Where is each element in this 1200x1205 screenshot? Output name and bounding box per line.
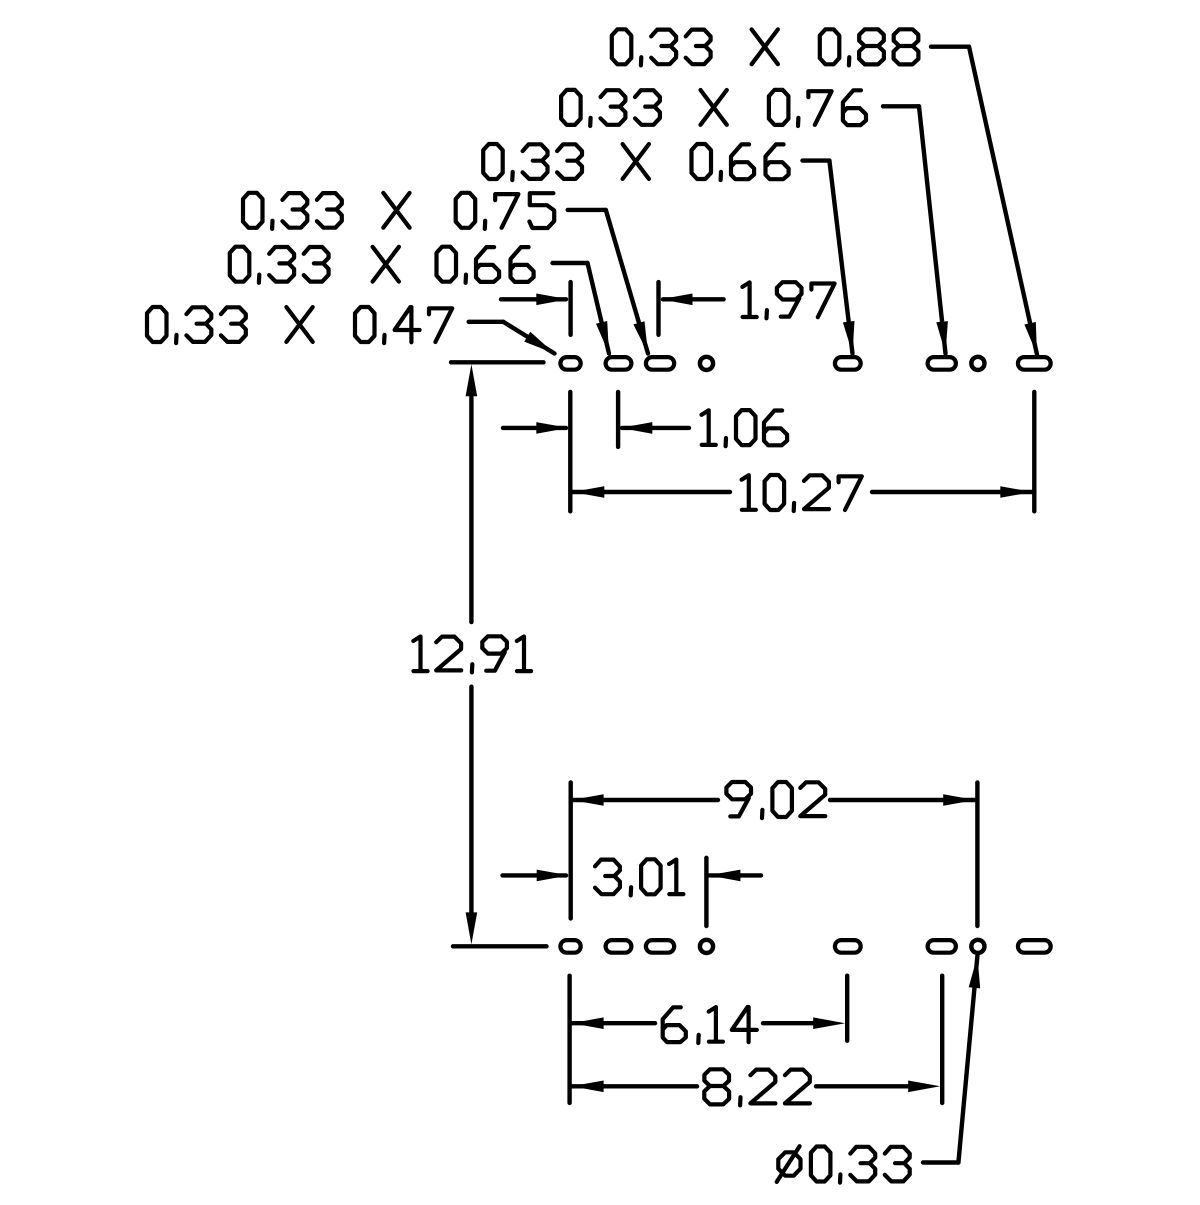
top row slot S8 (0.33x0.88)	[1018, 357, 1051, 370]
label "0.33 X 0.47" (row 6)	[147, 307, 452, 343]
leader to slot S1 (0.33 X 0.47)	[469, 322, 555, 354]
top row slot S5 (0.33x0.66)	[835, 357, 861, 370]
leader to slot S5 (0.33 X 0.66)	[803, 161, 855, 354]
leader to slot S3 (0.33 X 0.75)	[568, 210, 648, 354]
bottom row slot S5b (0.33x0.66)	[835, 940, 861, 953]
bottom row slot S6b (0.33x0.76)	[928, 940, 956, 953]
label "0.33 X 0.75" (row 4)	[243, 193, 554, 229]
top row slot S1 (0.33x0.47)	[560, 357, 580, 370]
leader to slot S6 (0.33 X 0.76)	[883, 106, 948, 353]
dimension 3.01 (slot S1b to hole H4b)	[503, 858, 762, 926]
bottom row hole H7b (hole 0.33)	[971, 940, 984, 953]
dimension 8.22 (slot S1b to slot S6b)	[572, 976, 943, 1106]
top row hole H7 (hole 0.33)	[971, 357, 984, 370]
label "0.33 X 0.76" (row 2)	[561, 90, 866, 126]
leader to slot S2 (0.33 X 0.66)	[553, 263, 610, 354]
dimension 12.91 (top row to bottom row)	[413, 362, 546, 946]
dimension 10.27 (slot S1 to slot S8)	[572, 392, 1034, 511]
bottom row slot S3b (0.33x0.75)	[646, 940, 674, 953]
top row slot S3 (0.33x0.75)	[646, 357, 674, 370]
label "0.33 X 0.66" (row 3)	[483, 144, 788, 180]
top row slot S2 (0.33x0.66)	[606, 357, 632, 370]
dimension 6.14 (slot S1b to slot S5b)	[570, 976, 848, 1103]
top row hole H4 (hole 0.33)	[700, 357, 713, 370]
bottom row slot S2b (0.33x0.66)	[606, 940, 632, 953]
top row slot S6 (0.33x0.76)	[928, 357, 956, 370]
bottom row slot S8b (0.33x0.88)	[1018, 940, 1051, 953]
label and leader Ø0.33 (to hole H7b)	[777, 956, 981, 1183]
dimension 1.06 (slot S1 to slot S2)	[503, 392, 787, 511]
label "0.33 X 0.66" (row 5)	[230, 247, 534, 283]
label "0.33 X 0.88" (row 1)	[612, 29, 919, 65]
dimension 9.02 (slot S1b to hole H7b)	[571, 782, 978, 926]
bottom row slot S1b (0.33x0.47)	[560, 940, 580, 953]
leader to slot S8 (0.33 X 0.88)	[931, 47, 1037, 355]
dimension 1.97 (slot S1 to slot S3)	[501, 282, 835, 335]
bottom row hole H4b (hole 0.33)	[700, 940, 713, 953]
